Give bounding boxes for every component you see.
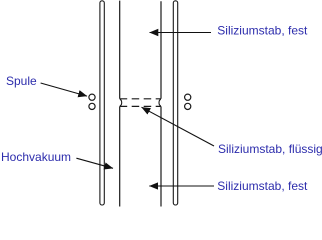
svg-text:Hochvakuum: Hochvakuum	[1, 150, 71, 164]
svg-text:Spule: Spule	[6, 74, 37, 88]
svg-text:Siliziumstab, flüssig: Siliziumstab, flüssig	[218, 142, 322, 156]
svg-text:Siliziumstab, fest: Siliziumstab, fest	[217, 179, 308, 193]
svg-text:Siliziumstab, fest: Siliziumstab, fest	[217, 24, 308, 38]
